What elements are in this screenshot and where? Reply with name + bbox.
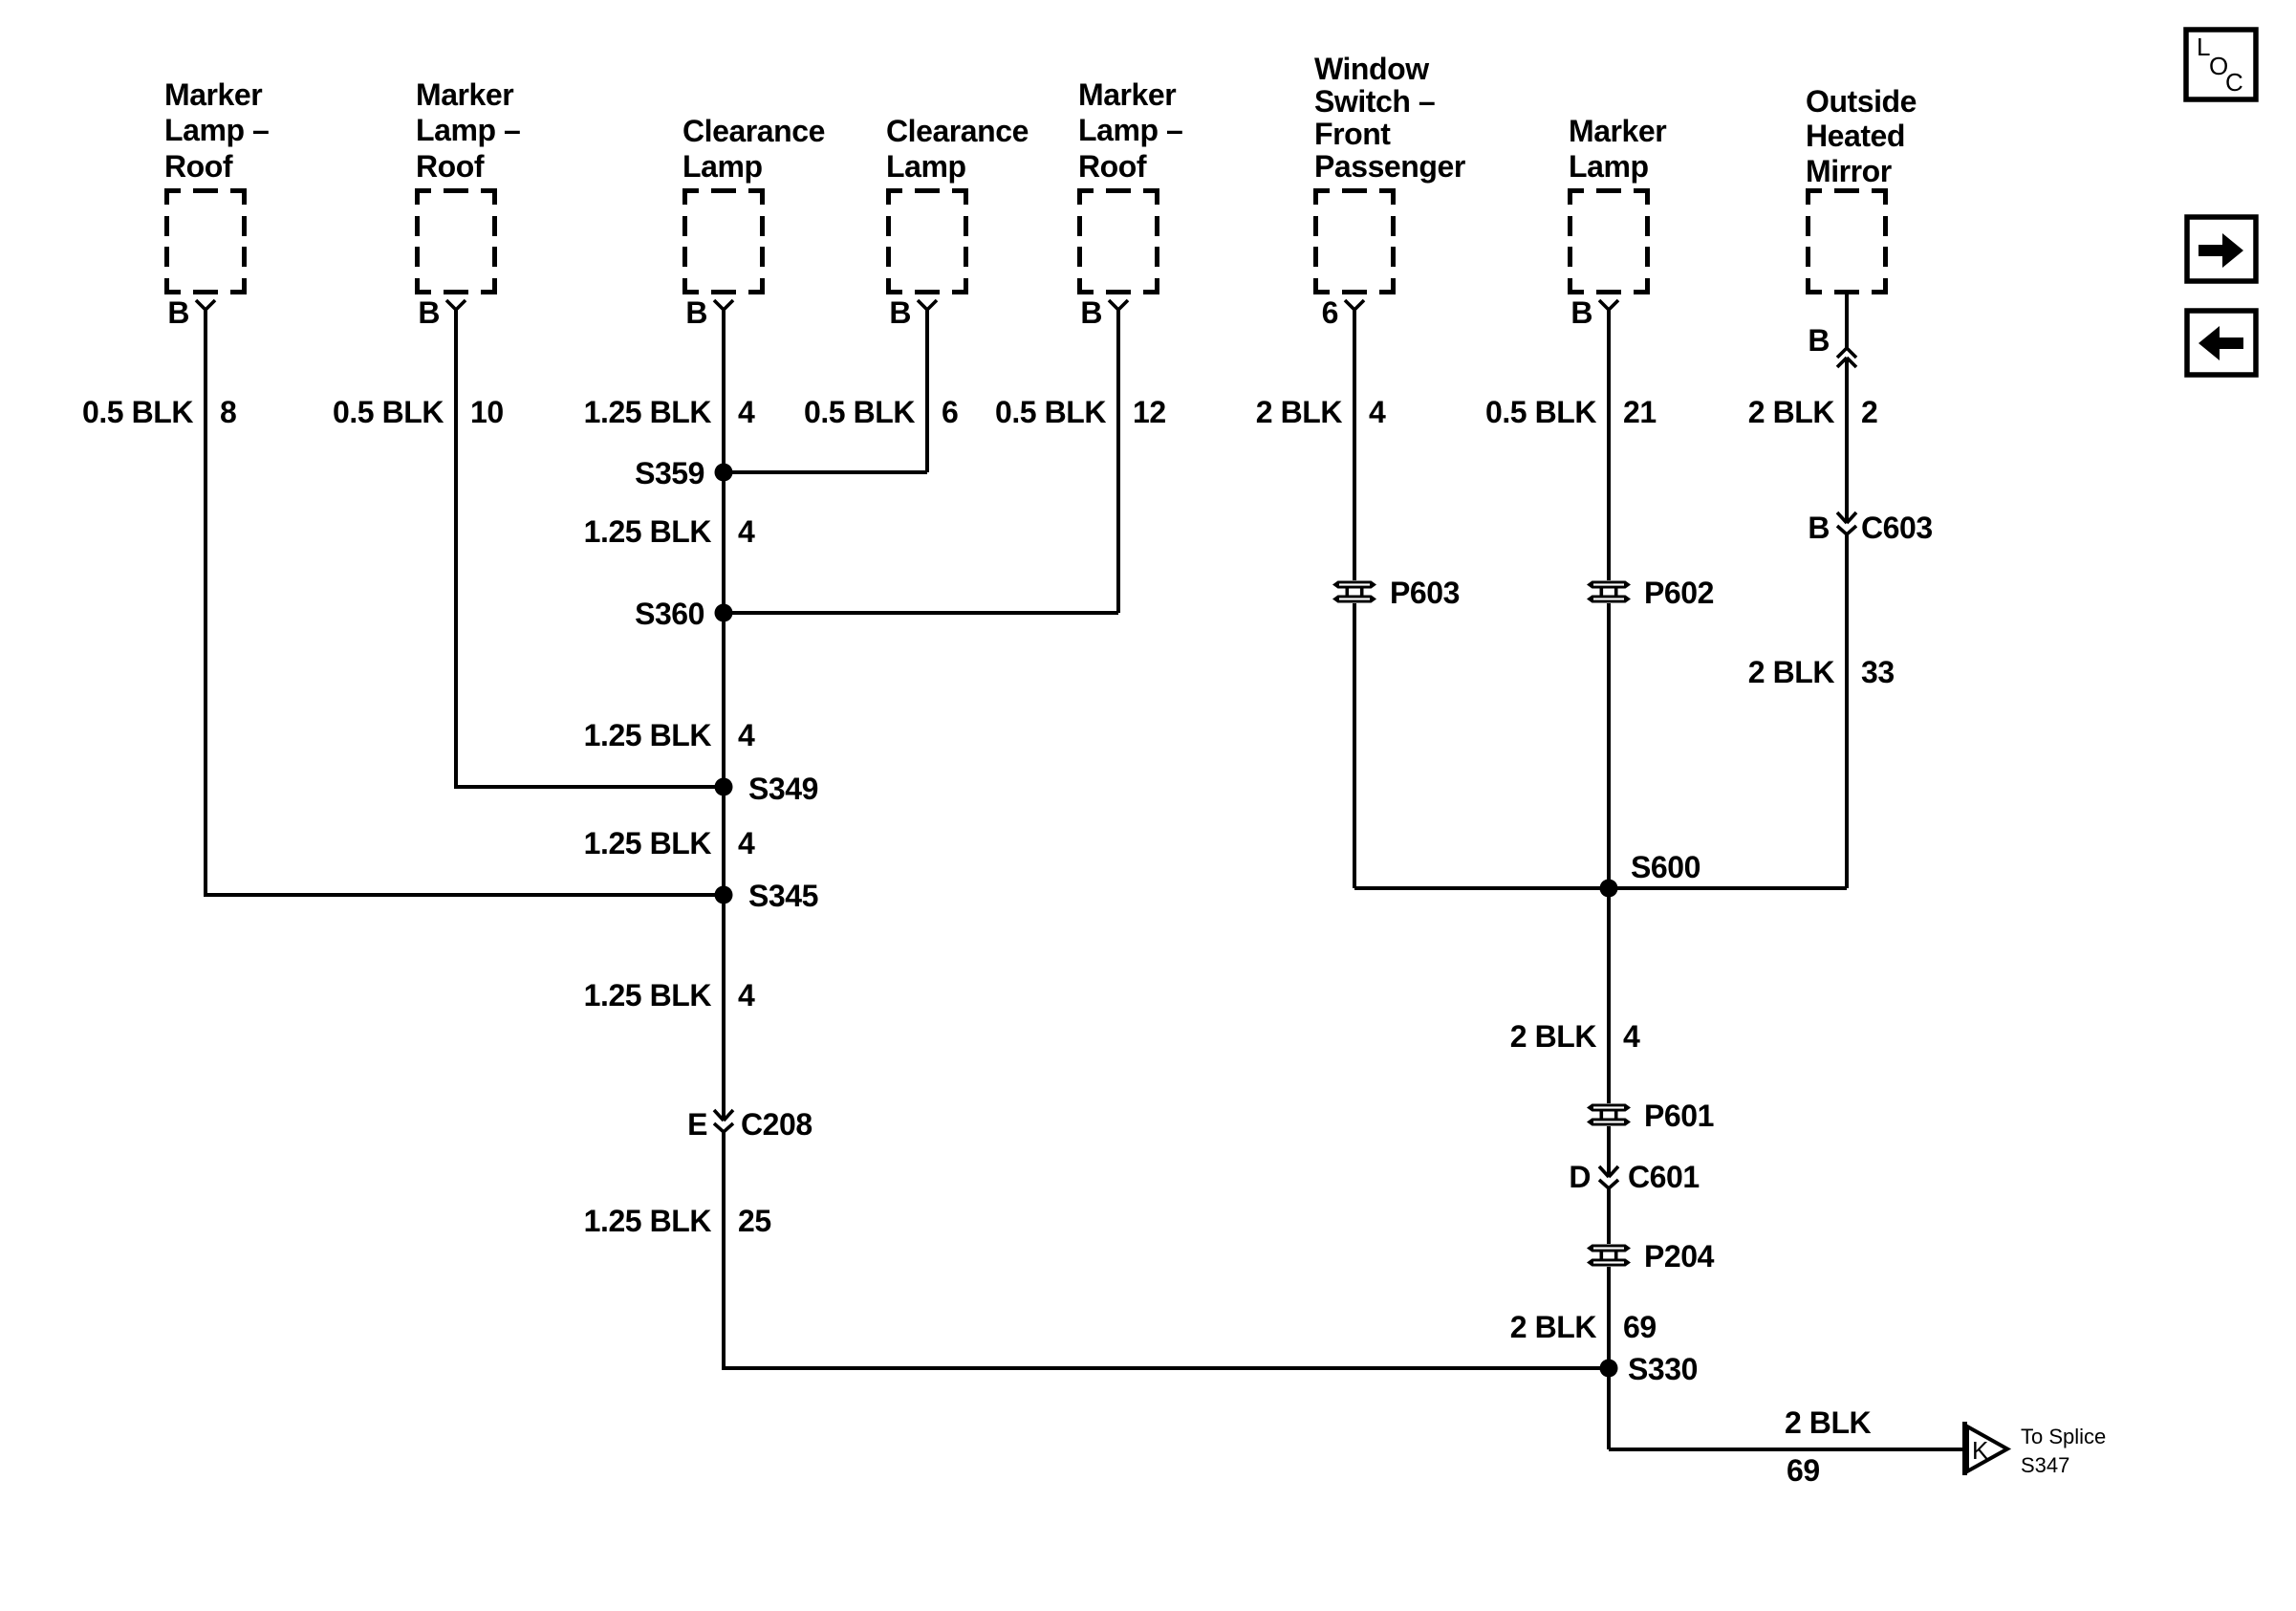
- svg-text:Mirror: Mirror: [1806, 154, 1892, 188]
- svg-text:2: 2: [1861, 395, 1877, 429]
- note: To Splice S347: [2021, 1425, 2106, 1477]
- svg-text:4: 4: [1369, 395, 1386, 429]
- svg-text:D: D: [1569, 1160, 1591, 1194]
- svg-text:2 BLK: 2 BLK: [1510, 1310, 1597, 1344]
- svg-text:Clearance: Clearance: [682, 114, 825, 148]
- wire label 1.25 BLK 4 (e): [584, 978, 755, 1012]
- wire label 0.5 BLK 8: [82, 395, 236, 429]
- svg-text:Switch –: Switch –: [1314, 84, 1435, 119]
- svg-text:Window: Window: [1314, 52, 1429, 86]
- splice S345 dot: [715, 886, 733, 904]
- svg-text:Lamp –: Lamp –: [1078, 113, 1182, 147]
- splice S600 dot: [1600, 880, 1618, 898]
- grommet P204: [1585, 1244, 1633, 1267]
- svg-text:K: K: [1972, 1436, 1989, 1465]
- grommet P602: [1585, 580, 1633, 603]
- svg-text:2 BLK: 2 BLK: [1510, 1019, 1597, 1054]
- pin fork: Window Switch pin 6: [1345, 300, 1364, 310]
- svg-text:1.25 BLK: 1.25 BLK: [584, 978, 712, 1012]
- wire label 0.5 BLK 12: [995, 395, 1166, 429]
- wire: Clearance Lamp 2 ground down to S359: [925, 310, 929, 472]
- svg-text:S360: S360: [635, 597, 704, 631]
- wire: Marker Lamp ground down through P602 to C601: [1607, 310, 1611, 1177]
- wire: Window Switch ground down through P603 to S600: [1353, 310, 1356, 888]
- svg-text:4: 4: [738, 395, 755, 429]
- svg-text:2 BLK: 2 BLK: [1748, 395, 1835, 429]
- wire label 1.25 BLK 4 (b): [584, 514, 755, 549]
- svg-text:33: 33: [1861, 655, 1895, 689]
- pin fork: Clearance Lamp 1 pin B: [714, 300, 733, 310]
- grommet P601: [1585, 1103, 1633, 1126]
- wire: mirror ground from C603 down to S600: [1845, 534, 1849, 888]
- svg-text:12: 12: [1133, 395, 1166, 429]
- connector C208 symbol: [714, 1110, 733, 1132]
- connector C601 symbol: [1599, 1166, 1618, 1188]
- component box: Marker Lamp - Roof (3): [1077, 188, 1159, 294]
- svg-text:2 BLK: 2 BLK: [1256, 395, 1343, 429]
- svg-text:C601: C601: [1628, 1160, 1700, 1194]
- pin fork: Marker Lamp Roof 3 pin B: [1109, 300, 1128, 310]
- wire label 2 BLK 33: [1748, 655, 1895, 689]
- svg-text:Roof: Roof: [416, 149, 485, 184]
- wire: mirror harness from up-connector to C603: [1845, 358, 1849, 523]
- svg-text:4: 4: [738, 978, 755, 1012]
- wire label 2 BLK 69: [1510, 1310, 1657, 1344]
- svg-text:C208: C208: [741, 1107, 812, 1142]
- label: Marker Lamp - Roof (3): [1078, 77, 1182, 184]
- svg-text:Lamp –: Lamp –: [416, 113, 520, 147]
- pin fork: Clearance Lamp 2 pin B: [918, 300, 937, 310]
- splice S330 dot: [1600, 1360, 1618, 1378]
- svg-text:Lamp: Lamp: [682, 149, 763, 184]
- wire: Outside Heated Mirror pigtail from box to up-connector: [1845, 294, 1849, 348]
- component box: Clearance Lamp (2): [886, 188, 968, 294]
- svg-text:Lamp –: Lamp –: [164, 113, 269, 147]
- pin fork: Marker Lamp Roof 1 pin B: [196, 300, 215, 310]
- svg-text:4: 4: [738, 718, 755, 752]
- wire: trunk from C208 down then right to S330: [724, 1132, 1609, 1368]
- wire: Marker Lamp Roof 2 ground, vertical then right to S349: [456, 310, 724, 787]
- wire: Clearance Lamp 1 ground trunk down to C208: [722, 310, 726, 1121]
- svg-text:To Splice: To Splice: [2021, 1425, 2106, 1448]
- svg-text:Lamp: Lamp: [1569, 149, 1649, 184]
- svg-text:C: C: [2225, 68, 2243, 97]
- svg-text:10: 10: [470, 395, 504, 429]
- svg-text:B: B: [685, 295, 707, 330]
- svg-text:P204: P204: [1644, 1239, 1715, 1274]
- svg-text:1.25 BLK: 1.25 BLK: [584, 718, 712, 752]
- wire label 1.25 BLK 4 (d): [584, 826, 755, 860]
- svg-text:S359: S359: [635, 456, 704, 490]
- svg-text:S345: S345: [748, 879, 818, 913]
- svg-text:P603: P603: [1390, 576, 1460, 610]
- wire label 1.25 BLK 25: [584, 1204, 771, 1238]
- svg-text:2 BLK: 2 BLK: [1785, 1405, 1872, 1440]
- LOC legend box: [2186, 30, 2256, 99]
- wire label 0.5 BLK 6: [804, 395, 958, 429]
- label: Marker Lamp - Roof (2): [416, 77, 520, 184]
- svg-text:1.25 BLK: 1.25 BLK: [584, 826, 712, 860]
- svg-text:B: B: [1808, 511, 1830, 545]
- svg-text:69: 69: [1787, 1453, 1820, 1488]
- svg-text:Marker: Marker: [416, 77, 513, 112]
- component box: Marker Lamp - Roof (1): [164, 188, 247, 294]
- svg-text:B: B: [418, 295, 440, 330]
- svg-text:1.25 BLK: 1.25 BLK: [584, 1204, 712, 1238]
- component box: Marker Lamp: [1568, 188, 1650, 294]
- grommet P603: [1331, 580, 1378, 603]
- wire label 2 BLK 2: [1748, 395, 1878, 429]
- svg-text:0.5 BLK: 0.5 BLK: [1485, 395, 1596, 429]
- svg-text:Marker: Marker: [1569, 114, 1666, 148]
- component box: Clearance Lamp (1): [682, 188, 765, 294]
- svg-text:S600: S600: [1631, 850, 1700, 884]
- svg-text:P601: P601: [1644, 1099, 1714, 1133]
- svg-text:Lamp: Lamp: [886, 149, 966, 184]
- wire label 2 BLK 4 (trunk): [1510, 1019, 1640, 1054]
- component box: Marker Lamp - Roof (2): [415, 188, 497, 294]
- wire: splice S360 horizontal: [724, 611, 1118, 615]
- label: Clearance Lamp (2): [886, 114, 1029, 184]
- wire: Marker Lamp Roof 1 ground, vertical then right to S345: [206, 310, 724, 895]
- label: Marker Lamp - Roof (1): [164, 77, 269, 184]
- pin fork: Marker Lamp pin B: [1599, 300, 1618, 310]
- wire: splice S600 horizontal: [1354, 886, 1847, 890]
- connector C603 down symbol: [1837, 512, 1856, 534]
- off-page arrow K to splice S347: [1962, 1422, 2007, 1475]
- svg-text:E: E: [687, 1107, 707, 1142]
- svg-text:2 BLK: 2 BLK: [1748, 655, 1835, 689]
- svg-text:69: 69: [1623, 1310, 1657, 1344]
- svg-text:B: B: [1570, 295, 1592, 330]
- splice S349 dot: [715, 778, 733, 796]
- wire: Marker Lamp Roof 3 ground down to S360: [1116, 310, 1120, 613]
- wire label 0.5 BLK 10: [333, 395, 504, 429]
- right-arrow legend box: [2187, 217, 2256, 281]
- svg-text:B: B: [1080, 295, 1102, 330]
- svg-text:4: 4: [738, 826, 755, 860]
- connector C603 up-chevron symbol: [1837, 348, 1856, 367]
- label: Outside Heated Mirror: [1806, 84, 1917, 188]
- svg-text:B: B: [889, 295, 911, 330]
- svg-text:4: 4: [738, 514, 755, 549]
- svg-text:S349: S349: [748, 772, 818, 806]
- svg-text:0.5 BLK: 0.5 BLK: [995, 395, 1106, 429]
- wire label 2 BLK 4 (window switch): [1256, 395, 1386, 429]
- svg-text:0.5 BLK: 0.5 BLK: [804, 395, 915, 429]
- wire: bottom horizontal to off-page arrow K: [1609, 1448, 1963, 1451]
- svg-text:S330: S330: [1628, 1352, 1698, 1386]
- wire label 1.25 BLK 4 (c): [584, 718, 755, 752]
- splice S360 dot: [715, 604, 733, 622]
- svg-text:0.5 BLK: 0.5 BLK: [82, 395, 193, 429]
- svg-text:25: 25: [738, 1204, 771, 1238]
- svg-text:B: B: [167, 295, 189, 330]
- svg-text:Roof: Roof: [1078, 149, 1147, 184]
- label: Marker Lamp: [1569, 114, 1666, 184]
- svg-text:6: 6: [1322, 295, 1338, 330]
- svg-text:21: 21: [1623, 395, 1657, 429]
- svg-text:P602: P602: [1644, 576, 1714, 610]
- svg-text:1.25 BLK: 1.25 BLK: [584, 514, 712, 549]
- svg-text:Marker: Marker: [164, 77, 262, 112]
- svg-text:B: B: [1808, 323, 1830, 358]
- svg-text:8: 8: [220, 395, 236, 429]
- wire: trunk from C601 through P204, S330 down and right to K arrow: [1607, 1188, 1611, 1449]
- component box: Outside Heated Mirror: [1806, 188, 1888, 294]
- label: Window Switch - Front Passenger: [1314, 52, 1465, 184]
- svg-text:Clearance: Clearance: [886, 114, 1029, 148]
- wire label 0.5 BLK 21: [1485, 395, 1657, 429]
- svg-text:4: 4: [1623, 1019, 1640, 1054]
- wire: splice S359 horizontal: [724, 470, 927, 474]
- svg-text:Heated: Heated: [1806, 119, 1905, 153]
- svg-text:1.25 BLK: 1.25 BLK: [584, 395, 712, 429]
- svg-text:6: 6: [942, 395, 958, 429]
- svg-text:Passenger: Passenger: [1314, 149, 1465, 184]
- svg-text:Outside: Outside: [1806, 84, 1917, 119]
- svg-text:0.5 BLK: 0.5 BLK: [333, 395, 444, 429]
- pin fork: Marker Lamp Roof 2 pin B: [446, 300, 466, 310]
- left-arrow legend box: [2187, 311, 2256, 375]
- label: Clearance Lamp (1): [682, 114, 825, 184]
- wire label 1.25 BLK 4 (a): [584, 395, 755, 429]
- svg-text:Marker: Marker: [1078, 77, 1176, 112]
- svg-text:Front: Front: [1314, 117, 1391, 151]
- svg-text:C603: C603: [1861, 511, 1933, 545]
- splice S359 dot: [715, 464, 733, 482]
- svg-text:Roof: Roof: [164, 149, 233, 184]
- component box: Window Switch - Front Passenger: [1313, 188, 1396, 294]
- svg-text:S347: S347: [2021, 1453, 2069, 1477]
